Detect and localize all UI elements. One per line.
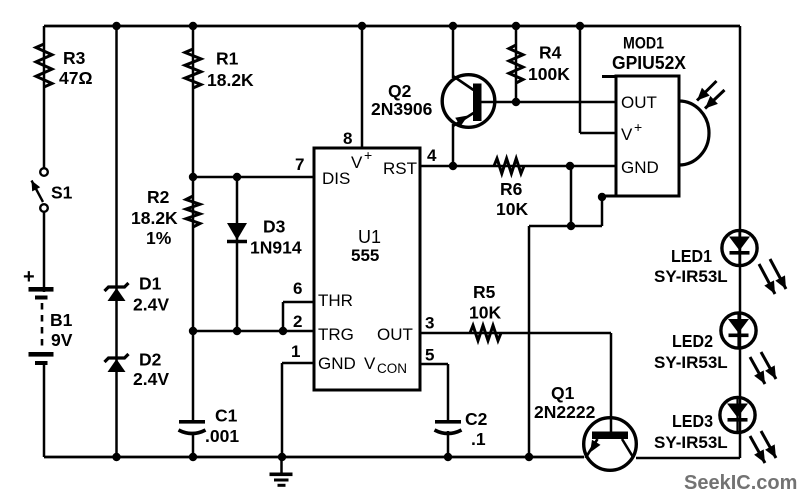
svg-text:S1: S1 [51, 183, 73, 203]
svg-text:R5: R5 [473, 282, 496, 302]
svg-text:RST: RST [383, 159, 417, 178]
svg-text:SY-IR53L: SY-IR53L [654, 353, 728, 372]
svg-text:10K: 10K [496, 199, 528, 219]
svg-text:DIS: DIS [322, 169, 350, 188]
svg-text:4: 4 [427, 146, 437, 165]
svg-text:LED2: LED2 [672, 331, 713, 351]
svg-text:1: 1 [291, 342, 300, 361]
svg-text:2.4V: 2.4V [133, 369, 169, 389]
svg-text:2: 2 [293, 312, 302, 331]
svg-text:TRG: TRG [318, 325, 354, 344]
svg-text:LED3: LED3 [672, 411, 713, 431]
svg-text:LED1: LED1 [671, 246, 712, 266]
svg-text:Q1: Q1 [551, 383, 575, 403]
svg-text:GPIU52X: GPIU52X [612, 53, 686, 73]
svg-text:MOD1: MOD1 [623, 34, 664, 53]
svg-text:1%: 1% [146, 228, 172, 248]
svg-text:2.4V: 2.4V [133, 295, 169, 315]
svg-text:5: 5 [425, 346, 434, 365]
svg-text:2N3906: 2N3906 [371, 99, 433, 119]
svg-text:B1: B1 [50, 310, 73, 330]
svg-text:D2: D2 [139, 350, 162, 370]
svg-text:9V: 9V [51, 330, 73, 350]
svg-text:SeekIC.com: SeekIC.com [684, 472, 797, 494]
svg-text:C1: C1 [215, 406, 238, 426]
svg-text:.001: .001 [205, 426, 239, 446]
svg-text:47Ω: 47Ω [59, 68, 93, 88]
svg-text:R2: R2 [147, 187, 170, 207]
svg-text:GND: GND [621, 158, 659, 177]
svg-text:U1: U1 [358, 227, 381, 247]
svg-text:+: + [23, 266, 35, 288]
svg-text:+: + [364, 147, 372, 163]
svg-text:V: V [621, 125, 633, 144]
svg-text:V: V [364, 354, 376, 373]
svg-text:THR: THR [318, 291, 353, 310]
svg-text:Q2: Q2 [388, 81, 412, 101]
svg-text:555: 555 [351, 246, 379, 265]
svg-text:18.2K: 18.2K [131, 208, 178, 228]
svg-text:V: V [351, 153, 363, 172]
svg-text:10K: 10K [469, 303, 501, 323]
svg-text:SY-IR53L: SY-IR53L [654, 433, 728, 452]
svg-text:D3: D3 [263, 217, 286, 237]
svg-text:R6: R6 [500, 179, 523, 199]
svg-text:SY-IR53L: SY-IR53L [654, 267, 728, 286]
svg-text:GND: GND [318, 354, 356, 373]
svg-text:CON: CON [377, 361, 407, 376]
svg-text:OUT: OUT [377, 325, 413, 344]
svg-text:D1: D1 [139, 274, 162, 294]
svg-text:18.2K: 18.2K [207, 70, 254, 90]
svg-text:3: 3 [425, 314, 434, 333]
svg-text:7: 7 [295, 155, 304, 174]
svg-text:2N2222: 2N2222 [534, 402, 596, 422]
svg-text:100K: 100K [528, 64, 570, 84]
svg-text:OUT: OUT [621, 93, 657, 112]
svg-text:.1: .1 [471, 429, 486, 449]
svg-text:R4: R4 [539, 43, 562, 63]
svg-text:+: + [634, 119, 642, 135]
svg-text:8: 8 [343, 129, 352, 148]
svg-text:C2: C2 [465, 409, 488, 429]
svg-text:1N914: 1N914 [250, 238, 302, 258]
svg-text:6: 6 [293, 279, 302, 298]
svg-text:R1: R1 [216, 49, 239, 69]
svg-text:R3: R3 [63, 48, 86, 68]
